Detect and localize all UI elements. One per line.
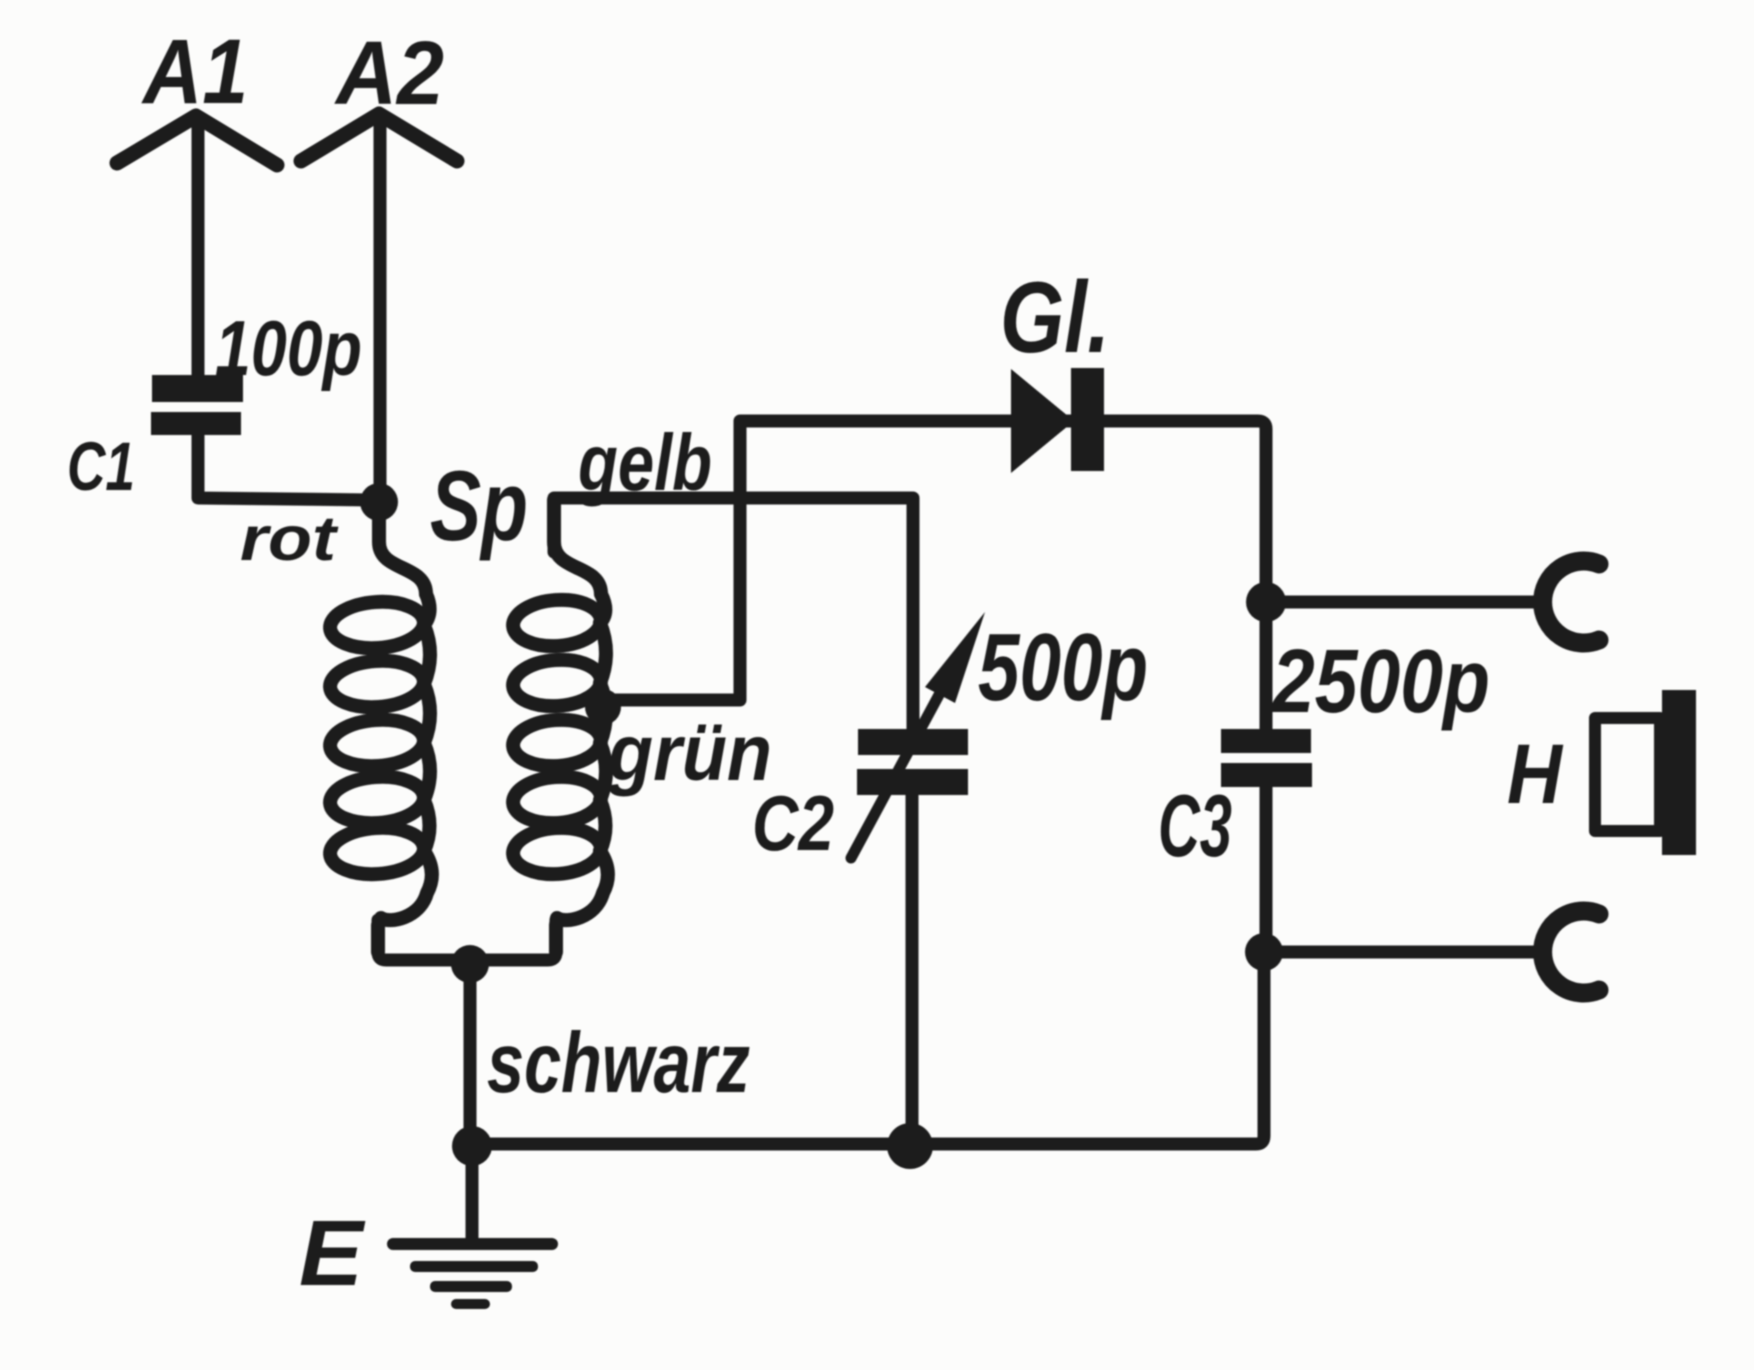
wire to phone top terminal xyxy=(1266,596,1540,609)
svg-text:grün: grün xyxy=(607,708,772,797)
wire coil bottom to ground xyxy=(464,964,477,1146)
wire to phone bottom terminal xyxy=(1264,946,1540,959)
wire C1 bottom to node A xyxy=(198,435,372,500)
capacitor C3 xyxy=(1260,602,1273,729)
node C3 bottom junction dot xyxy=(1245,933,1283,971)
svg-text:C2: C2 xyxy=(752,779,834,867)
earphone H symbol xyxy=(1595,690,1696,855)
svg-text:500p: 500p xyxy=(978,614,1148,721)
antenna A1 xyxy=(117,116,277,375)
wire gruen tap to diode line xyxy=(603,422,740,700)
coil Sp secondary winding xyxy=(512,500,608,952)
svg-text:Sp: Sp xyxy=(430,450,528,561)
phone terminal bottom xyxy=(1543,911,1599,993)
phone terminal top xyxy=(1543,561,1599,643)
antenna A2 xyxy=(301,114,457,492)
svg-text:Gl.: Gl. xyxy=(1000,262,1110,374)
svg-text:100p: 100p xyxy=(215,304,362,392)
wire gelb: secondary top to C2 top xyxy=(554,498,913,729)
node gruen tap junction dot xyxy=(585,689,621,725)
wire C3 bottom xyxy=(1260,787,1273,952)
svg-text:2500p: 2500p xyxy=(1270,632,1490,732)
capacitor C1 xyxy=(151,375,243,435)
arrow of C2 xyxy=(851,693,940,858)
node ground junction dot xyxy=(452,1126,492,1166)
wire bottom bus xyxy=(472,952,1264,1144)
svg-text:A1: A1 xyxy=(141,21,248,123)
svg-text:gelb: gelb xyxy=(577,418,712,507)
coil Sp primary winding xyxy=(329,502,432,952)
node bus C2 junction dot xyxy=(887,1123,933,1169)
svg-text:C1: C1 xyxy=(67,428,135,505)
svg-text:H: H xyxy=(1507,727,1564,821)
wire diode top line xyxy=(740,421,1266,600)
wire coil bottom U xyxy=(378,920,556,960)
node coil bottom junction dot xyxy=(451,945,489,983)
node A junction dot xyxy=(360,483,398,521)
svg-text:schwarz: schwarz xyxy=(487,1016,750,1111)
diode Gl xyxy=(1011,368,1104,473)
node diode output junction dot xyxy=(1246,582,1286,622)
svg-text:rot: rot xyxy=(240,504,339,574)
wire C2 bottom to bus xyxy=(906,795,919,1144)
svg-text:C3: C3 xyxy=(1158,776,1232,875)
ground E xyxy=(466,1146,479,1243)
svg-text:A2: A2 xyxy=(334,24,444,124)
capacitor C2 variable xyxy=(857,729,968,795)
svg-text:E: E xyxy=(299,1201,366,1305)
